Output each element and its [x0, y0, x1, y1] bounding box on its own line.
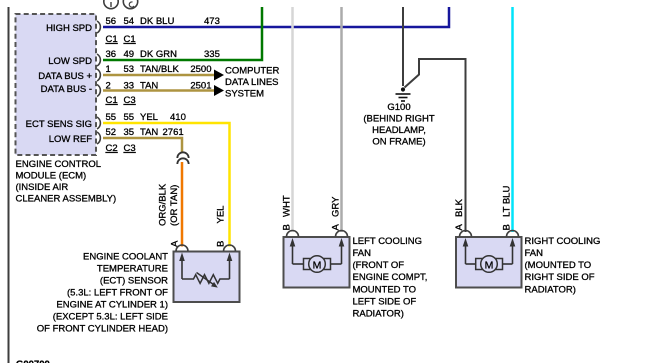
ECM pin row texts: [106, 16, 220, 27]
svg-text:B: B: [502, 224, 513, 230]
svg-text:56: 56: [106, 16, 117, 27]
svg-text:LEFT COOLING: LEFT COOLING: [353, 236, 423, 247]
svg-text:G100: G100: [387, 102, 410, 113]
ECM caption: [16, 159, 117, 205]
node G100 caption: [363, 102, 434, 148]
svg-text:2761: 2761: [163, 127, 184, 138]
svg-text:53: 53: [124, 64, 135, 75]
sensor pin arrow B: [227, 253, 233, 280]
wire label YEL: [216, 206, 227, 224]
wire ORG/BLK: [181, 162, 184, 247]
arrow to computer data lines 1: [214, 70, 224, 81]
svg-text:C1: C1: [106, 95, 118, 106]
svg-text:SYSTEM: SYSTEM: [225, 89, 264, 100]
svg-text:55: 55: [106, 112, 117, 123]
left fan pin arc A: [336, 231, 348, 237]
svg-text:YEL: YEL: [140, 112, 158, 123]
wire TAN 2761: [103, 138, 182, 152]
wire YEL 410: [103, 123, 230, 247]
svg-text:52: 52: [106, 127, 117, 138]
svg-text:55: 55: [124, 112, 135, 123]
svg-text:2: 2: [106, 81, 111, 92]
svg-text:HIGH SPD: HIGH SPD: [46, 23, 92, 34]
ECT sensor caption: [37, 252, 168, 335]
svg-text:TAN/BLK: TAN/BLK: [140, 64, 180, 75]
svg-text:ENGINE CONTROL: ENGINE CONTROL: [16, 159, 102, 170]
right fan pin arc B: [507, 231, 519, 237]
svg-text:35: 35: [124, 127, 135, 138]
right fan pin arc A: [460, 231, 472, 237]
svg-text:ON FRAME): ON FRAME): [372, 137, 425, 148]
svg-text:M: M: [313, 260, 322, 272]
wire DK GRN 335: [103, 7, 262, 60]
svg-text:DK BLU: DK BLU: [140, 16, 174, 27]
svg-text:LOW SPD: LOW SPD: [48, 56, 92, 67]
right fan caption: [525, 236, 601, 296]
svg-text:(MOUNTED TO: (MOUNTED TO: [525, 260, 592, 271]
svg-text:DATA BUS -: DATA BUS -: [41, 84, 92, 95]
svg-text:OF FRONT CYLINDER HEAD): OF FRONT CYLINDER HEAD): [37, 324, 168, 335]
ECM pin arc 55: [97, 117, 100, 129]
svg-text:TAN: TAN: [140, 81, 158, 92]
left fan motor M1: [293, 256, 342, 273]
wire B WHT left fan: [291, 7, 294, 232]
svg-text:TEMPERATURE: TEMPERATURE: [97, 264, 168, 275]
svg-text:FAN: FAN: [353, 248, 372, 259]
svg-text:335: 335: [204, 49, 220, 60]
connector circle top 2: [123, 0, 137, 9]
left cooling fan box: [284, 237, 350, 288]
svg-text:LEFT SIDE OF: LEFT SIDE OF: [353, 297, 417, 308]
wire B LT BLU right fan: [511, 7, 514, 232]
svg-text:RADIATOR): RADIATOR): [353, 309, 404, 320]
right cooling fan box: [456, 237, 522, 288]
svg-text:CLEANER ASSEMBLY): CLEANER ASSEMBLY): [16, 194, 117, 205]
svg-text:2501: 2501: [190, 81, 211, 92]
wire label A BLK: [454, 198, 465, 230]
svg-text:(INSIDE AIR: (INSIDE AIR: [16, 182, 69, 193]
wire label B LT BLU: [502, 186, 513, 231]
ECM pin arc 2: [97, 85, 100, 97]
wire A GRY left fan: [340, 7, 343, 232]
connector label C1 C3: [106, 95, 136, 106]
connector label C1 C1: [106, 34, 136, 45]
svg-text:C3: C3: [124, 143, 136, 154]
svg-text:G00700: G00700: [16, 359, 50, 363]
svg-text:WHT: WHT: [282, 195, 293, 217]
svg-text:M: M: [485, 260, 494, 272]
svg-text:COMPUTER: COMPUTER: [225, 66, 280, 77]
pin letter B sensor: [216, 241, 227, 247]
ECM pin arc 36: [97, 54, 100, 66]
wire label A GRY: [331, 196, 342, 231]
svg-text:MOUNTED TO: MOUNTED TO: [353, 285, 417, 296]
svg-text:ECT SENS SIG: ECT SENS SIG: [26, 119, 92, 130]
ECM pin labels: [26, 23, 93, 145]
wire label B WHT: [282, 195, 293, 230]
svg-text:(EXCEPT 5.3L: LEFT SIDE: (EXCEPT 5.3L: LEFT SIDE: [53, 312, 168, 323]
left fan caption: [353, 236, 428, 320]
svg-text:473: 473: [204, 16, 220, 27]
svg-text:(ECT) SENSOR: (ECT) SENSOR: [100, 276, 168, 287]
svg-text:A: A: [331, 224, 342, 231]
ECM pin arc 52: [97, 132, 100, 144]
sensor pin arrow A: [179, 253, 185, 280]
svg-text:ENGINE COOLANT: ENGINE COOLANT: [83, 252, 168, 263]
right fan pin arrow A: [463, 238, 469, 264]
svg-text:DK GRN: DK GRN: [140, 49, 177, 60]
wire TAN 2501: [103, 89, 215, 92]
right fan motor M2: [466, 256, 513, 273]
svg-text:C1: C1: [124, 34, 136, 45]
svg-text:1: 1: [106, 64, 111, 75]
wire left border vertical: [8, 7, 10, 363]
svg-text:(FRONT OF: (FRONT OF: [353, 260, 405, 271]
connector label C2 C3: [106, 143, 136, 154]
svg-text:YEL: YEL: [216, 206, 227, 224]
svg-text:36: 36: [106, 49, 117, 60]
svg-text:ENGINE AT CYLINDER 1): ENGINE AT CYLINDER 1): [56, 300, 168, 311]
figure number G00700: [16, 359, 50, 363]
ECM box: [16, 14, 97, 155]
left fan pin arc B: [287, 231, 299, 237]
connector circle top 1: [104, 0, 118, 9]
svg-text:LOW REF: LOW REF: [49, 134, 92, 145]
svg-text:MODULE (ECM): MODULE (ECM): [16, 171, 87, 182]
svg-text:(5.3L: LEFT FRONT OF: (5.3L: LEFT FRONT OF: [67, 288, 168, 299]
sensor pin arc B: [224, 245, 236, 251]
svg-text:ENGINE COMPT,: ENGINE COMPT,: [353, 272, 428, 283]
ECT sensor box: [174, 252, 240, 303]
ECM pin arc 56: [97, 21, 100, 33]
svg-text:BLK: BLK: [454, 198, 465, 217]
pin letter A sensor: [170, 240, 181, 247]
svg-text:RIGHT COOLING: RIGHT COOLING: [525, 236, 601, 247]
svg-text:410: 410: [170, 112, 186, 123]
svg-text:49: 49: [124, 49, 135, 60]
arrow to computer data lines 2: [214, 85, 224, 96]
svg-text:33: 33: [124, 81, 135, 92]
svg-text:RADIATOR): RADIATOR): [525, 285, 576, 296]
right fan pin arrow B: [510, 238, 516, 264]
left fan pin arrow A: [339, 238, 345, 264]
svg-text:C1: C1: [106, 34, 118, 45]
svg-text:HEADLAMP,: HEADLAMP,: [372, 125, 426, 136]
thermistor element: [182, 273, 230, 288]
svg-text:(BEHIND RIGHT: (BEHIND RIGHT: [363, 114, 434, 125]
svg-text:DATA BUS +: DATA BUS +: [38, 71, 92, 82]
left fan pin arrow B: [290, 238, 296, 264]
wire ground drop: [402, 7, 404, 86]
svg-text:GRY: GRY: [331, 196, 342, 217]
sensor pin arc A: [176, 245, 188, 251]
wire A BLK right fan to ground: [405, 59, 466, 232]
wire DK BLU 473: [103, 7, 449, 27]
svg-text:FAN: FAN: [525, 248, 544, 259]
svg-text:ORG/BLK: ORG/BLK: [157, 183, 168, 226]
wire label ORG/BLK (OR TAN): [157, 183, 180, 226]
svg-text:B: B: [282, 224, 293, 230]
wire TAN/BLK 2500: [103, 74, 215, 77]
svg-text:C3: C3: [124, 95, 136, 106]
svg-text:TAN: TAN: [140, 127, 158, 138]
svg-text:54: 54: [124, 16, 135, 27]
svg-text:(OR TAN): (OR TAN): [169, 185, 180, 226]
svg-text:A: A: [454, 224, 465, 231]
svg-text:RIGHT SIDE OF: RIGHT SIDE OF: [525, 272, 595, 283]
svg-text:LT BLU: LT BLU: [502, 186, 513, 217]
ground G100: [396, 87, 411, 101]
svg-text:DATA LINES: DATA LINES: [225, 77, 279, 88]
svg-text:C2: C2: [106, 143, 118, 154]
wire break symbol: [177, 152, 188, 164]
node COMPUTER DATA LINES SYSTEM: [225, 66, 280, 100]
svg-text:2500: 2500: [190, 64, 211, 75]
ECM pin arc 1: [97, 69, 100, 81]
